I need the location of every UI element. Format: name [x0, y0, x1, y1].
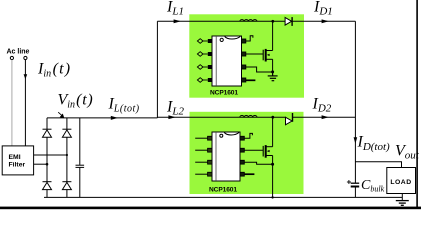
green cell box 1 — [189, 14, 304, 97]
ac line terminal R — [24, 56, 27, 59]
green cell box 2 — [190, 112, 304, 194]
IL(tot) arrow — [111, 116, 118, 120]
U2 pin3 wire — [244, 162, 272, 164]
load ground bars — [396, 200, 409, 202]
rectified bus wire — [47, 117, 157, 119]
bridge diode DB1 (top-left) — [43, 129, 52, 137]
svg-text:LOAD: LOAD — [390, 179, 411, 186]
U1 left pin 3 diamond — [197, 65, 207, 70]
bottom ground rail wire — [44, 196, 402, 198]
ID(tot) arrow — [354, 137, 358, 144]
node: mosfet2 drain to L2 wire — [271, 116, 274, 119]
U1 left pin 2 pad — [208, 52, 212, 56]
node: Q2 source junction — [271, 163, 274, 166]
EMI filter box — [2, 146, 33, 175]
capacitor Cin plate top — [76, 164, 85, 166]
U1 left pin 2 diamond — [197, 52, 207, 57]
Iin arrow — [24, 74, 28, 79]
svg-text:NCP1601: NCP1601 — [210, 90, 238, 97]
wire ac right — [24, 60, 26, 146]
Vout tap wire — [355, 162, 401, 168]
top branch wire to D1 — [157, 20, 285, 22]
ac line terminal L — [10, 56, 13, 59]
U1 left pin 4 diamond — [197, 78, 207, 83]
branch riser wire — [156, 21, 158, 118]
bottom border — [0, 207, 421, 210]
IL2 arrow — [168, 115, 175, 119]
node: EMI wire to left column — [46, 163, 49, 166]
U1 left pin 3 pad — [208, 65, 212, 69]
svg-text:NCP1601: NCP1601 — [209, 186, 237, 193]
node: EMI wire to right column — [66, 154, 68, 156]
bridge left column wire — [46, 118, 48, 197]
U2 pin2 gate wire — [244, 149, 263, 151]
U1 left pin 4 pad — [208, 78, 212, 82]
U2 pin1 hook wire — [244, 133, 252, 138]
U2 right pin pads — [240, 136, 244, 176]
wire EMI to left bridge column — [34, 163, 47, 165]
bridge diode DB4 (bottom-right) — [62, 182, 71, 190]
bridge right column wire — [66, 118, 68, 197]
ID2 arrow — [322, 115, 329, 119]
U2 left pin pads — [208, 136, 212, 176]
ID1 arrow — [322, 19, 329, 23]
wire EMI to right bridge column — [34, 154, 67, 156]
op IC U2 body — [212, 132, 240, 181]
svg-text:Vin(t): Vin(t) — [58, 92, 94, 111]
mosfet Q1 — [263, 21, 272, 72]
wire ac left — [11, 60, 13, 146]
capacitor Cbulk plates — [351, 183, 360, 186]
ground symbol cell 1 — [268, 72, 278, 81]
svg-text:Ac line: Ac line — [7, 49, 30, 56]
U2 left pin wires — [195, 138, 207, 174]
bottom branch wire D2 to output rail — [293, 116, 356, 118]
IL1 arrow — [174, 19, 181, 23]
output rail wire — [354, 21, 356, 183]
svg-text:Filter: Filter — [9, 161, 26, 168]
capacitor Cin plate bottom — [76, 166, 85, 168]
svg-text:EMI: EMI — [9, 154, 21, 161]
node: Q2 source to ground rail — [271, 196, 273, 198]
mosfet Q2 — [263, 117, 272, 197]
inductor L2 — [240, 115, 257, 117]
op IC U1 body — [212, 36, 242, 86]
top branch wire D1 to output rail — [292, 20, 355, 22]
bulk front capacitor branch wire — [79, 118, 81, 165]
diode D2 — [286, 113, 293, 125]
svg-text:Iin(t): Iin(t) — [37, 61, 71, 80]
bridge diode DB2 (top-right) — [62, 129, 71, 137]
node: Q1 source junction — [271, 70, 274, 73]
node: mosfet1 drain to L1 wire — [271, 20, 274, 23]
diode D1 — [285, 17, 292, 26]
load box — [387, 168, 416, 194]
U1 pin4 stub — [246, 79, 256, 81]
inductor L1 — [240, 20, 257, 22]
load ground stub — [401, 194, 403, 201]
Cbulk plus sign — [347, 180, 351, 184]
U1 right pin pads — [242, 39, 246, 82]
U1 left pin 1 diamond — [197, 39, 207, 44]
U2 pin4 stub — [244, 173, 254, 175]
U1 pin2 gate wire — [246, 53, 263, 55]
Vin pointer arrow — [58, 112, 64, 117]
U1 pin3 wire — [246, 67, 273, 72]
U1 pin1 hook wire — [246, 36, 253, 41]
right border — [416, 0, 418, 208]
bridge diode DB3 (bottom-left) — [43, 182, 52, 190]
U1 left pin 1 pad — [208, 39, 212, 43]
bottom branch wire to D2 — [157, 116, 285, 118]
